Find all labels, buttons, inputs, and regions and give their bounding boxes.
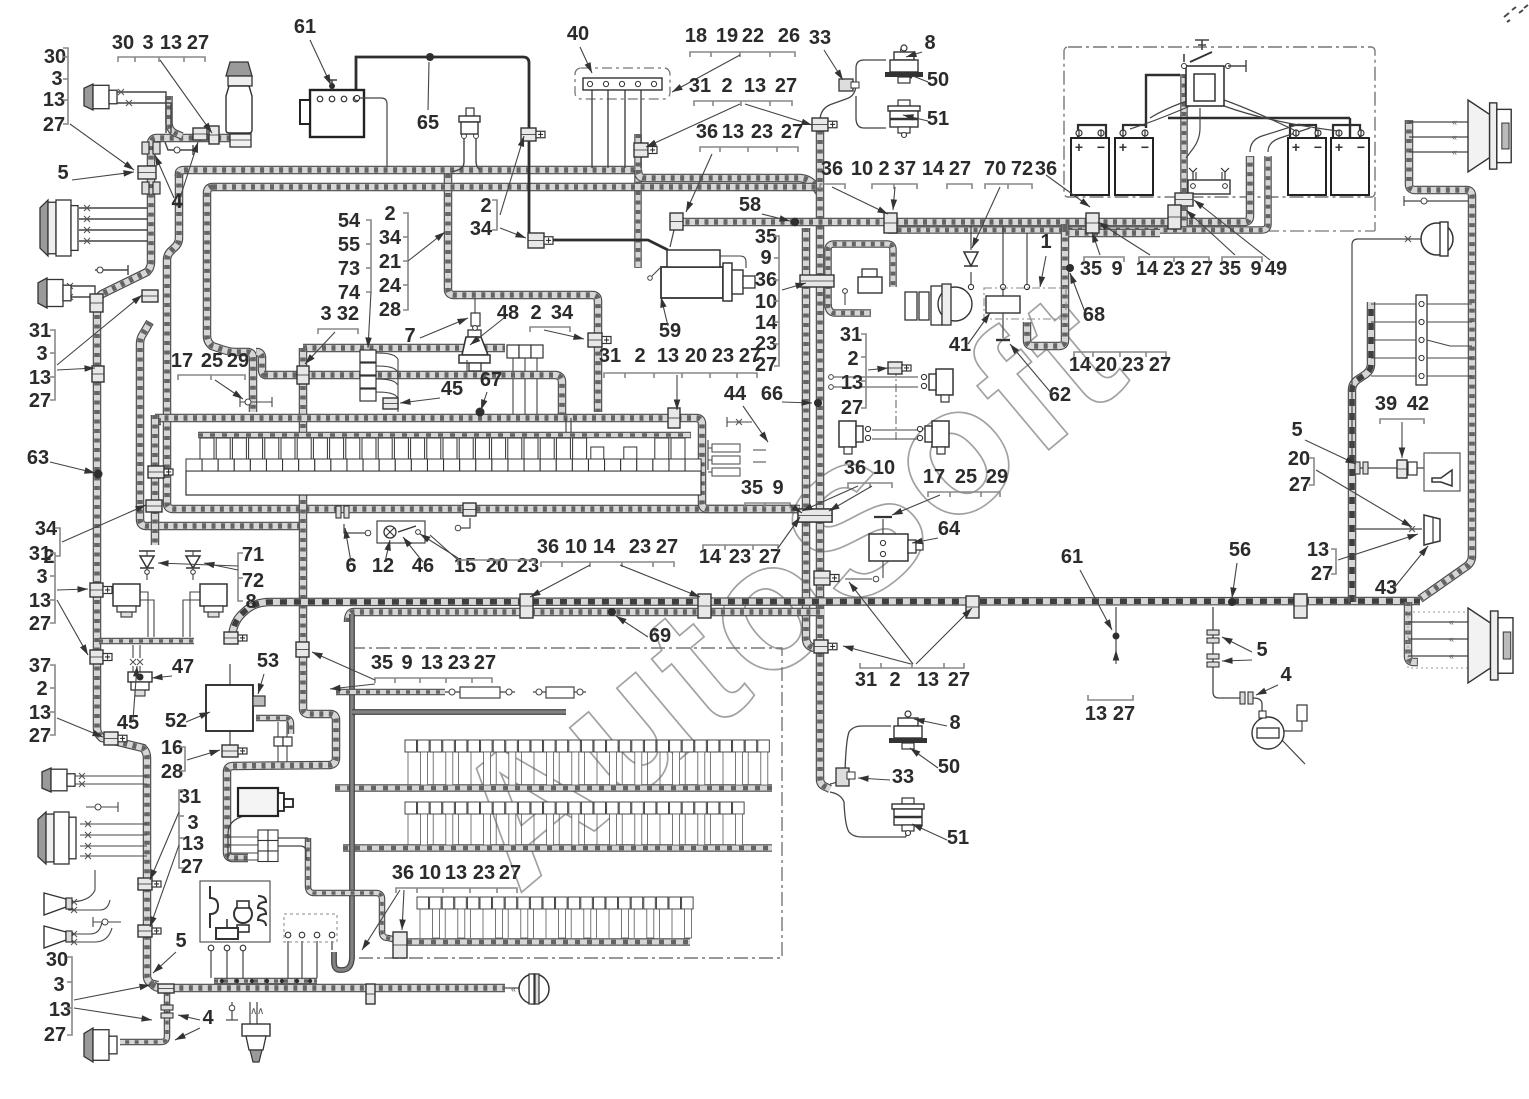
svg-text:27: 27: [29, 390, 51, 412]
svg-text:36: 36: [696, 121, 718, 143]
svg-text:23: 23: [473, 862, 495, 884]
svg-text:«: «: [1452, 132, 1457, 142]
svg-text:8: 8: [245, 591, 256, 613]
svg-text:36: 36: [844, 457, 866, 479]
svg-text:31: 31: [840, 324, 862, 346]
svg-text:«: «: [1449, 617, 1454, 627]
svg-text:34: 34: [470, 218, 493, 240]
svg-text:+: +: [830, 642, 836, 653]
svg-text:27: 27: [499, 862, 521, 884]
svg-text:22: 22: [742, 25, 764, 47]
svg-text:26: 26: [778, 25, 800, 47]
svg-text:2: 2: [384, 203, 395, 225]
svg-text:9: 9: [760, 247, 771, 269]
svg-text:27: 27: [1289, 474, 1311, 496]
svg-text:13: 13: [49, 999, 71, 1021]
svg-text:41: 41: [949, 334, 971, 356]
svg-text:13: 13: [160, 32, 182, 54]
svg-text:31: 31: [689, 75, 711, 97]
svg-text:62: 62: [1049, 384, 1071, 406]
svg-text:+: +: [546, 236, 552, 247]
svg-text:63: 63: [27, 447, 49, 469]
svg-text:1: 1: [1040, 231, 1051, 253]
svg-text:27: 27: [949, 158, 971, 180]
svg-text:+: +: [830, 120, 836, 131]
svg-text:27: 27: [44, 1024, 66, 1046]
svg-text:−: −: [1141, 139, 1149, 155]
svg-text:30: 30: [112, 32, 134, 54]
svg-text:27: 27: [948, 669, 970, 691]
svg-text:9: 9: [401, 652, 412, 674]
svg-text:18: 18: [685, 25, 707, 47]
svg-text:66: 66: [761, 383, 783, 405]
svg-text:19: 19: [716, 25, 738, 47]
svg-text:10: 10: [873, 457, 895, 479]
svg-text:42: 42: [1407, 393, 1429, 415]
svg-text:13: 13: [182, 833, 204, 855]
svg-text:15: 15: [454, 555, 476, 577]
svg-text:28: 28: [379, 299, 401, 321]
svg-text:3: 3: [36, 343, 47, 365]
svg-text:9: 9: [1250, 258, 1261, 280]
svg-text:2: 2: [634, 345, 645, 367]
svg-text:69: 69: [649, 625, 671, 647]
svg-text:29: 29: [227, 350, 249, 372]
svg-text:27: 27: [1113, 703, 1135, 725]
svg-text:71: 71: [242, 544, 264, 566]
svg-text:20: 20: [685, 345, 707, 367]
svg-text:67: 67: [480, 369, 502, 391]
svg-text:2: 2: [878, 158, 889, 180]
svg-text:10: 10: [851, 158, 873, 180]
svg-text:51: 51: [947, 827, 969, 849]
svg-text:27: 27: [181, 856, 203, 878]
svg-text:8: 8: [949, 712, 960, 734]
svg-text:23: 23: [517, 555, 539, 577]
svg-text:58: 58: [739, 194, 761, 216]
svg-text:27: 27: [841, 397, 863, 419]
svg-text:30: 30: [44, 46, 66, 68]
svg-text:36: 36: [1035, 158, 1057, 180]
svg-text:33: 33: [892, 766, 914, 788]
svg-text:+: +: [1335, 139, 1343, 155]
svg-text:13: 13: [657, 345, 679, 367]
svg-text:«: «: [1449, 634, 1454, 644]
svg-text:23: 23: [729, 546, 751, 568]
svg-text:30: 30: [46, 949, 68, 971]
svg-text:13: 13: [1307, 539, 1329, 561]
svg-text:36: 36: [821, 158, 843, 180]
svg-text:27: 27: [775, 75, 797, 97]
svg-text:23: 23: [751, 121, 773, 143]
svg-text:37: 37: [29, 655, 51, 677]
svg-text:27: 27: [1149, 354, 1171, 376]
svg-text:13: 13: [445, 862, 467, 884]
svg-text:+: +: [166, 468, 172, 479]
svg-text:2: 2: [721, 75, 732, 97]
svg-text:34: 34: [379, 227, 402, 249]
svg-text:4: 4: [202, 1007, 214, 1029]
svg-text:27: 27: [781, 121, 803, 143]
svg-text:9: 9: [1111, 258, 1122, 280]
svg-text:25: 25: [955, 466, 977, 488]
svg-text:2: 2: [36, 678, 47, 700]
svg-text:5: 5: [1291, 419, 1302, 441]
svg-text:3: 3: [51, 68, 62, 90]
svg-text:∧: ∧: [257, 1006, 264, 1017]
svg-text:21: 21: [379, 251, 401, 273]
svg-text:7: 7: [404, 325, 415, 347]
svg-text:40: 40: [567, 23, 589, 45]
svg-text:23: 23: [629, 536, 651, 558]
svg-text:31: 31: [29, 543, 51, 565]
svg-text:43: 43: [1375, 577, 1397, 599]
svg-text:27: 27: [187, 32, 209, 54]
svg-text:44: 44: [724, 383, 747, 405]
svg-text:5: 5: [175, 930, 186, 952]
svg-text:13: 13: [421, 652, 443, 674]
svg-text:13: 13: [1085, 703, 1107, 725]
svg-text:−: −: [1097, 139, 1105, 155]
svg-text:24: 24: [379, 275, 402, 297]
svg-text:+: +: [154, 880, 160, 891]
svg-text:+: +: [1292, 139, 1300, 155]
svg-text:+: +: [1119, 139, 1127, 155]
svg-text:59: 59: [659, 320, 681, 342]
svg-text:3: 3: [53, 974, 64, 996]
svg-text:−: −: [1357, 139, 1365, 155]
svg-text:34: 34: [35, 518, 58, 540]
svg-text:35: 35: [741, 477, 763, 499]
svg-text:34: 34: [551, 302, 574, 324]
svg-text:53: 53: [257, 650, 279, 672]
svg-text:20: 20: [1288, 448, 1310, 470]
svg-text:27: 27: [656, 536, 678, 558]
svg-text:27: 27: [43, 114, 65, 136]
svg-text:72: 72: [1011, 158, 1033, 180]
svg-text:31: 31: [855, 669, 877, 691]
svg-text:14: 14: [755, 312, 778, 334]
svg-text:«: «: [1452, 117, 1457, 127]
svg-text:+: +: [650, 146, 656, 157]
svg-text:«: «: [511, 984, 516, 994]
svg-text:13: 13: [917, 669, 939, 691]
svg-text:6: 6: [345, 555, 356, 577]
svg-text:56: 56: [1229, 539, 1251, 561]
svg-text:50: 50: [927, 69, 949, 91]
svg-text:+: +: [538, 130, 544, 141]
svg-text:27: 27: [739, 345, 761, 367]
svg-text:+: +: [154, 927, 160, 938]
svg-text:13: 13: [29, 590, 51, 612]
svg-text:2: 2: [480, 195, 491, 217]
svg-text:10: 10: [419, 862, 441, 884]
svg-text:2: 2: [847, 348, 858, 370]
svg-text:27: 27: [29, 725, 51, 747]
svg-text:8: 8: [924, 32, 935, 54]
svg-text:29: 29: [986, 466, 1008, 488]
svg-text:«: «: [1452, 147, 1457, 157]
svg-text:70: 70: [984, 158, 1006, 180]
svg-text:+: +: [904, 364, 910, 375]
svg-text:13: 13: [29, 367, 51, 389]
svg-text:65: 65: [417, 112, 439, 134]
svg-text:3: 3: [187, 812, 198, 834]
svg-text:27: 27: [29, 613, 51, 635]
svg-text:«: «: [1449, 651, 1454, 661]
svg-text:13: 13: [43, 89, 65, 111]
svg-text:68: 68: [1083, 304, 1105, 326]
svg-text:36: 36: [392, 862, 414, 884]
svg-text:+: +: [120, 734, 126, 745]
svg-text:32: 32: [337, 303, 359, 325]
svg-text:35: 35: [371, 652, 393, 674]
svg-text:+: +: [105, 653, 111, 664]
svg-text:13: 13: [841, 372, 863, 394]
svg-text:28: 28: [161, 761, 183, 783]
svg-text:12: 12: [372, 555, 394, 577]
svg-text:10: 10: [565, 536, 587, 558]
svg-text:3: 3: [142, 32, 153, 54]
svg-text:20: 20: [1095, 354, 1117, 376]
svg-text:73: 73: [338, 258, 360, 280]
svg-text:45: 45: [441, 378, 463, 400]
svg-text:64: 64: [938, 518, 961, 540]
svg-text:13: 13: [722, 121, 744, 143]
svg-text:5: 5: [57, 162, 68, 184]
svg-text:23: 23: [448, 652, 470, 674]
svg-text:50: 50: [938, 756, 960, 778]
svg-text:36: 36: [755, 269, 777, 291]
svg-text:3: 3: [320, 303, 331, 325]
svg-text:9: 9: [772, 477, 783, 499]
svg-text:51: 51: [927, 108, 949, 130]
svg-text:49: 49: [1265, 258, 1287, 280]
svg-text:+: +: [832, 574, 838, 585]
svg-text:39: 39: [1375, 393, 1397, 415]
svg-text:2: 2: [530, 302, 541, 324]
svg-text:−: −: [1314, 139, 1322, 155]
svg-text:16: 16: [161, 737, 183, 759]
svg-text:17: 17: [171, 350, 193, 372]
svg-text:+: +: [240, 634, 246, 645]
svg-text:33: 33: [809, 27, 831, 49]
svg-text:2: 2: [889, 669, 900, 691]
svg-text:37: 37: [894, 158, 916, 180]
svg-text:23: 23: [712, 345, 734, 367]
svg-text:55: 55: [338, 234, 360, 256]
svg-text:4: 4: [1280, 664, 1292, 686]
svg-text:27: 27: [474, 652, 496, 674]
svg-text:3: 3: [36, 566, 47, 588]
svg-text:61: 61: [1061, 546, 1083, 568]
svg-text:10: 10: [755, 291, 777, 313]
svg-text:47: 47: [172, 656, 194, 678]
svg-text:45: 45: [117, 712, 139, 734]
svg-text:13: 13: [744, 75, 766, 97]
svg-text:+: +: [240, 747, 246, 758]
svg-text:36: 36: [537, 536, 559, 558]
svg-text:23: 23: [1122, 354, 1144, 376]
svg-text:74: 74: [338, 282, 361, 304]
svg-text:72: 72: [242, 570, 264, 592]
svg-text:+: +: [1075, 139, 1083, 155]
svg-text:52: 52: [165, 710, 187, 732]
svg-text:14: 14: [593, 536, 616, 558]
svg-text:46: 46: [412, 555, 434, 577]
svg-text:14: 14: [922, 158, 945, 180]
svg-text:17: 17: [923, 466, 945, 488]
svg-text:5: 5: [1256, 639, 1267, 661]
svg-text:20: 20: [486, 555, 508, 577]
svg-text:14: 14: [1069, 354, 1092, 376]
svg-text:25: 25: [201, 350, 223, 372]
svg-text:13: 13: [29, 702, 51, 724]
svg-text:27: 27: [1311, 563, 1333, 585]
svg-text:31: 31: [29, 320, 51, 342]
svg-text:54: 54: [338, 210, 361, 232]
svg-text:31: 31: [599, 345, 621, 367]
svg-text:61: 61: [294, 16, 316, 38]
svg-text:+: +: [105, 586, 111, 597]
svg-text:35: 35: [755, 226, 777, 248]
